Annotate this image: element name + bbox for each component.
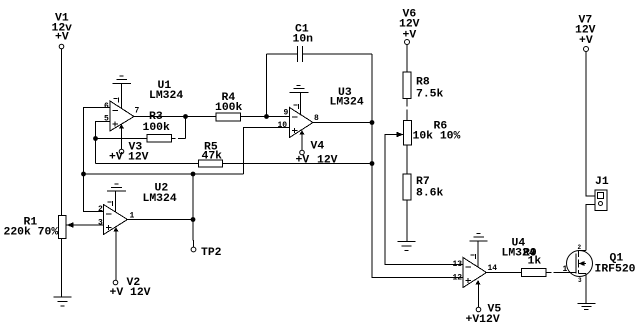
svg-text:7.5k: 7.5k (416, 89, 444, 101)
transistor Q1 IRF520 (563, 244, 636, 284)
wire J1 to Q1 drain (586, 205, 595, 251)
svg-text:1k: 1k (528, 256, 542, 268)
svg-text:13: 13 (453, 260, 463, 269)
wire R6 to R7 (406, 145, 408, 174)
resistor R3 100k (96, 111, 186, 142)
voltage source V2 (110, 228, 151, 299)
voltage source V4 (296, 131, 338, 167)
svg-text:IRF520: IRF520 (595, 264, 636, 276)
op-amp U2 LM324 (98, 183, 177, 235)
svg-text:10n: 10n (293, 34, 314, 46)
svg-text:+V: +V (55, 32, 69, 44)
svg-text:220k 70%: 220k 70% (4, 227, 59, 239)
svg-text:R8: R8 (416, 77, 430, 89)
svg-text:2: 2 (578, 244, 582, 251)
svg-text:3: 3 (578, 277, 582, 284)
wire R6 wiper to U4 pin 13 (385, 135, 463, 265)
svg-text:10k 10%: 10k 10% (413, 131, 461, 143)
svg-text:+V 12V: +V 12V (110, 287, 151, 299)
svg-text:100k: 100k (143, 122, 171, 134)
ground below R1 (54, 297, 72, 306)
svg-text:TP2: TP2 (201, 247, 222, 259)
test point TP2 (191, 220, 222, 260)
wire R1 wiper to U2 pin 3 (67, 224, 104, 226)
wire node A to U2 pin 2 (84, 174, 104, 212)
svg-text:+V: +V (579, 35, 593, 47)
wire U2 output (128, 219, 194, 221)
junction rail to U2 output (191, 172, 196, 177)
resistor R8 7.5k (403, 72, 444, 101)
svg-text:+V: +V (403, 30, 417, 42)
junction R5 rail to vertical (370, 161, 375, 166)
resistor R7 8.6k (403, 174, 444, 200)
svg-text:9: 9 (284, 109, 289, 118)
svg-text:6: 6 (104, 102, 109, 111)
svg-text:J1: J1 (595, 176, 609, 188)
wire U1 pin 5 to node B (96, 122, 111, 164)
svg-text:10: 10 (278, 121, 288, 130)
voltage source V6 (399, 9, 420, 45)
junction node A (81, 172, 86, 177)
svg-text:8.6k: 8.6k (416, 188, 444, 200)
ground below R7 (398, 242, 416, 251)
wire U2 output to rail (192, 174, 194, 220)
connector J1 (595, 176, 609, 211)
wire R1 to ground (61, 239, 63, 298)
junction node B (93, 136, 98, 141)
wire V6 to R8 (406, 45, 408, 73)
wire Q1 source to ground (585, 274, 587, 304)
resistor R9 1k (487, 248, 577, 277)
op-amp U3 LM324 (278, 87, 364, 138)
ground above U4 (470, 234, 488, 268)
wire R7 to ground (406, 200, 408, 242)
wire V7 to J1 (586, 52, 595, 197)
capacitor C1 10n (267, 24, 373, 123)
ground below Q1 (578, 304, 596, 310)
op-amp U4 LM324 (453, 238, 536, 288)
ground above U1 (113, 76, 132, 109)
voltage source V7 (575, 15, 596, 52)
svg-text:2: 2 (98, 205, 103, 214)
junction C1 branch (264, 114, 269, 119)
resistor R5 47k (96, 142, 373, 168)
svg-text:LM324: LM324 (143, 193, 177, 205)
svg-text:R7: R7 (416, 176, 430, 188)
svg-text:12: 12 (453, 274, 463, 283)
svg-text:+V12V: +V12V (466, 314, 500, 326)
wire corner to U3 pin 10 (244, 128, 290, 175)
wire U1 pin 6 to node A (84, 108, 111, 175)
potentiometer R1 220k 70% (4, 216, 74, 239)
ground above U3 (290, 86, 309, 115)
wire junction down to U4 pin 12 (372, 123, 463, 278)
svg-text:14: 14 (488, 264, 498, 273)
svg-text:7: 7 (135, 107, 140, 116)
svg-text:+V: +V (109, 152, 123, 164)
junction U2 output (191, 217, 196, 222)
wire U3 output to junction (313, 122, 372, 124)
svg-text:12V: 12V (128, 152, 149, 164)
wire node A rail to pin10 corner (84, 173, 244, 175)
svg-text:100k: 100k (215, 102, 243, 114)
svg-text:12V: 12V (317, 155, 338, 167)
wire R8 to R6 (406, 99, 408, 121)
wire V1 to R1 top (61, 49, 63, 216)
svg-text:LM324: LM324 (330, 97, 364, 109)
voltage source V5 (466, 281, 502, 326)
svg-text:3: 3 (98, 219, 103, 228)
potentiometer R6 10k 10% (397, 121, 461, 146)
voltage source V1 (52, 13, 73, 49)
ground above U2 (107, 184, 126, 212)
svg-text:+V: +V (296, 155, 310, 167)
svg-text:8: 8 (314, 114, 319, 123)
op-amp U1 LM324 (104, 80, 183, 131)
voltage source V3 (109, 126, 149, 164)
svg-text:5: 5 (104, 115, 109, 124)
resistor R4 100k (134, 92, 290, 121)
junction U3 output (370, 120, 375, 125)
junction R3 to output rail (183, 114, 188, 119)
svg-text:V4: V4 (311, 141, 325, 153)
svg-text:LM324: LM324 (149, 90, 183, 102)
